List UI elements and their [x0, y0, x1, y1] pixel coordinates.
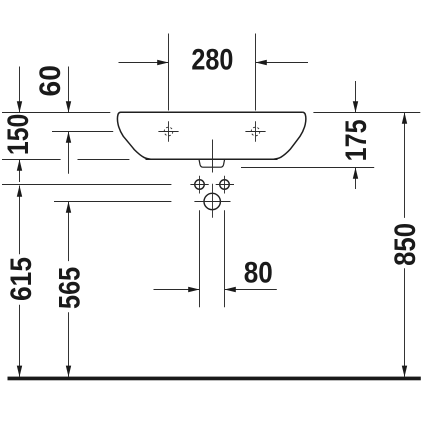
svg-text:850: 850: [389, 223, 422, 266]
svg-text:175: 175: [340, 119, 373, 161]
svg-text:615: 615: [5, 257, 38, 301]
svg-text:150: 150: [2, 114, 35, 155]
svg-text:80: 80: [244, 257, 273, 290]
svg-text:60: 60: [34, 65, 67, 96]
svg-text:280: 280: [191, 43, 233, 76]
svg-text:565: 565: [54, 267, 87, 309]
